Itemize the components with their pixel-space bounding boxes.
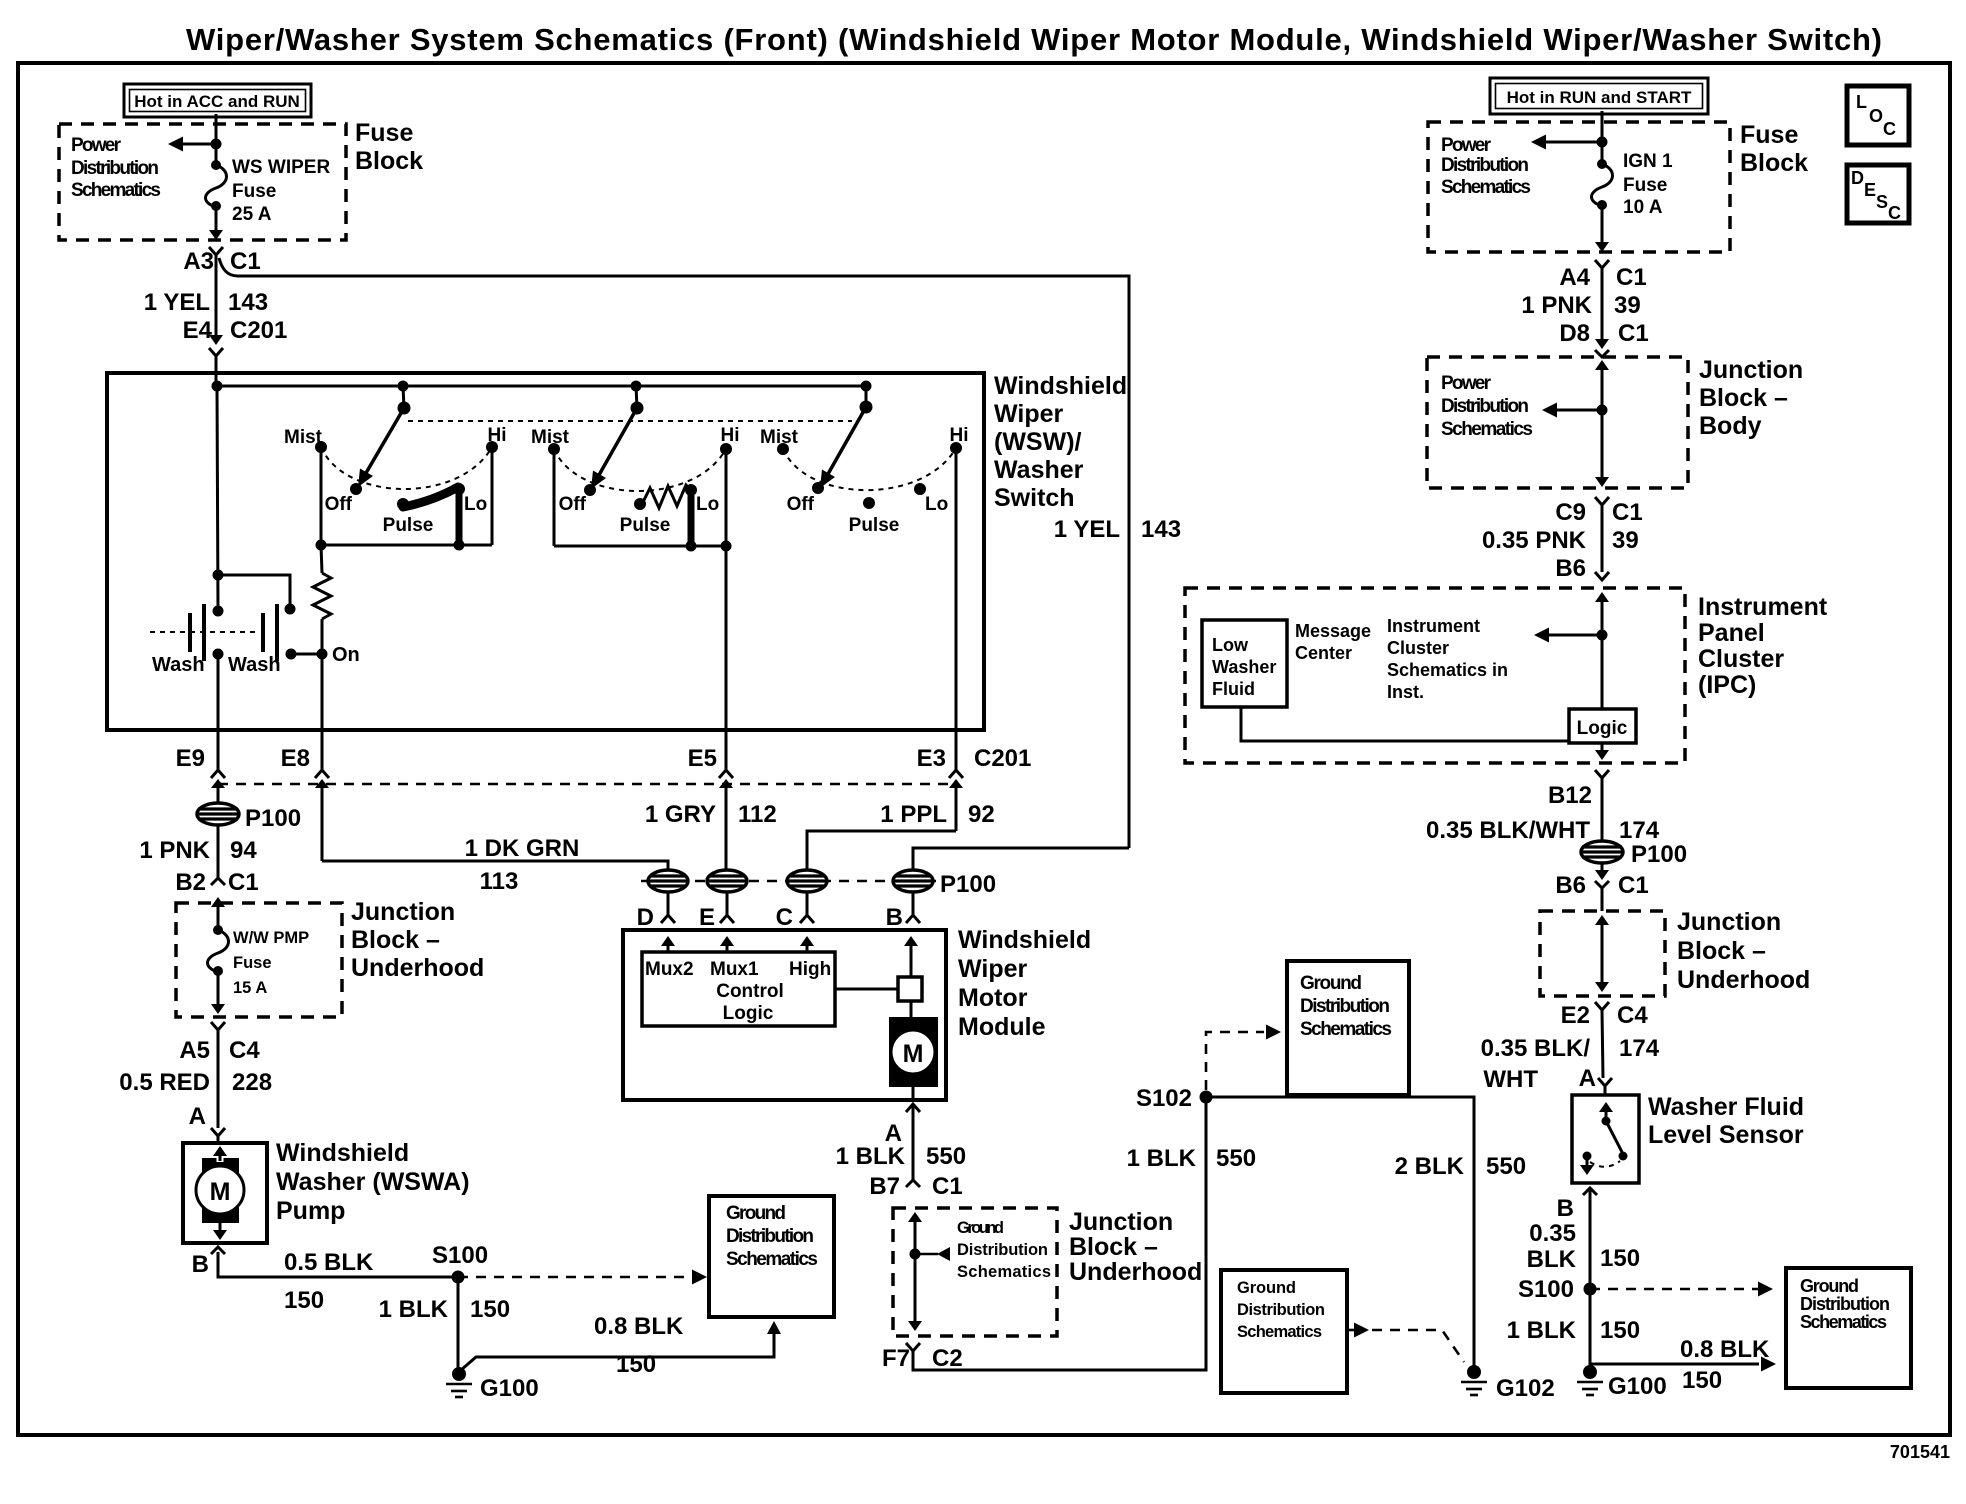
- svg-text:Windshield: Windshield: [276, 1139, 409, 1167]
- svg-text:Schematics: Schematics: [1800, 1312, 1887, 1332]
- arrow into bottom junction block: [908, 1212, 922, 1326]
- svg-text:E2: E2: [1561, 1002, 1590, 1029]
- svg-text:A3: A3: [183, 248, 214, 275]
- svg-text:S102: S102: [1136, 1085, 1192, 1112]
- svg-text:2 BLK: 2 BLK: [1395, 1153, 1465, 1180]
- dashed reference S102 to ground distribution: [1206, 1025, 1281, 1091]
- svg-text:S100: S100: [432, 1242, 488, 1269]
- fuse F1 WS WIPER 25A symbol: [206, 160, 227, 211]
- pin label E3 / C201: [917, 745, 1032, 772]
- svg-text:B6: B6: [1555, 872, 1586, 899]
- wire label 1 PNK 39: [1521, 292, 1640, 319]
- wire label 1 YEL 143 (right of switch): [1054, 516, 1181, 543]
- svg-text:Underhood: Underhood: [1069, 1258, 1202, 1286]
- svg-text:C4: C4: [229, 1037, 260, 1064]
- svg-text:Hi: Hi: [721, 425, 740, 446]
- svg-text:Instrument: Instrument: [1387, 616, 1480, 636]
- svg-text:Power: Power: [71, 135, 122, 156]
- wire label 1 BLK 550 (S102): [1127, 1145, 1256, 1172]
- svg-text:Washer Fluid: Washer Fluid: [1648, 1093, 1804, 1121]
- svg-text:Hot in RUN and START: Hot in RUN and START: [1507, 88, 1692, 107]
- pin label F7 / C2: [882, 1345, 963, 1372]
- svg-text:Block –: Block –: [1677, 937, 1766, 965]
- wire B12 to P100: [1601, 778, 1604, 841]
- arrow out of fuse block bottom: [209, 230, 223, 240]
- svg-text:Wiper/Washer System Schematics: Wiper/Washer System Schematics (Front) (…: [186, 22, 1882, 57]
- wire label 1 PPL 92: [880, 801, 994, 828]
- svg-text:C: C: [1883, 119, 1896, 139]
- svg-text:Underhood: Underhood: [351, 954, 484, 982]
- connector P100 pass-through B: [893, 870, 933, 892]
- svg-text:Washer: Washer: [1212, 657, 1276, 677]
- arrow out of IPC: [1595, 743, 1609, 760]
- wire low washer fluid to logic: [1241, 707, 1569, 741]
- svg-text:Junction: Junction: [1677, 908, 1781, 936]
- wire gang1 Lo to bus (thick): [456, 488, 463, 545]
- svg-text:Wiper: Wiper: [958, 955, 1027, 983]
- svg-text:Pulse: Pulse: [383, 515, 434, 536]
- svg-text:C1: C1: [230, 248, 261, 275]
- svg-text:1 GRY: 1 GRY: [645, 801, 716, 828]
- svg-text:Mux1: Mux1: [710, 959, 759, 980]
- hot in ACC and RUN power tag: [124, 84, 311, 117]
- svg-text:25 A: 25 A: [232, 204, 272, 225]
- arrow out of junction block bottom: [211, 1004, 225, 1014]
- svg-text:Block: Block: [355, 147, 423, 175]
- svg-text:Ground: Ground: [726, 1203, 786, 1224]
- wire label 0.8 BLK 150 (right): [1680, 1336, 1770, 1394]
- svg-text:C: C: [1888, 203, 1901, 223]
- wash switch branch wire: [213, 570, 296, 615]
- switch gang 3 actuator: [820, 381, 873, 489]
- node: IGN fuse feed junction: [1597, 137, 1608, 148]
- svg-text:Lo: Lo: [696, 494, 719, 515]
- wire fuse F3 to block edge: [1601, 205, 1604, 248]
- svg-text:Distribution: Distribution: [1300, 996, 1390, 1017]
- power distribution schematics reference text (left fuse block): [71, 135, 161, 201]
- wire label 1 BLK 150 (left): [379, 1296, 510, 1323]
- svg-text:B12: B12: [1548, 782, 1592, 809]
- svg-text:Hi: Hi: [488, 425, 507, 446]
- svg-text:P100: P100: [940, 871, 996, 898]
- fuse F3 IGN 1 10A symbol: [1592, 159, 1613, 210]
- wash labels: [152, 654, 281, 676]
- wire label 0.35 PNK 39: [1482, 527, 1639, 554]
- svg-text:S100: S100: [1518, 1276, 1574, 1303]
- ground distribution schematics text (bottom mid): [1237, 1279, 1325, 1341]
- svg-text:Washer: Washer: [994, 456, 1084, 484]
- svg-text:E5: E5: [688, 745, 717, 772]
- svg-text:Windshield: Windshield: [994, 372, 1127, 400]
- instrument panel cluster dashed box: [1185, 588, 1685, 763]
- pump name label: [276, 1139, 470, 1225]
- pin label A3 / C1: [183, 248, 260, 275]
- wire A5 to pump: [217, 1030, 220, 1128]
- svg-text:94: 94: [230, 837, 257, 864]
- connector C201 dashed line: [218, 783, 956, 786]
- gang1 bottom bus: [321, 544, 492, 547]
- module name label: [958, 926, 1091, 1041]
- wire wash2 to On node: [291, 653, 322, 656]
- svg-text:Lo: Lo: [925, 494, 948, 515]
- arrow out of bottom junction block: [908, 1321, 922, 1331]
- wire F7 to S102: [913, 1097, 1206, 1370]
- junction block body dashed box: [1427, 357, 1688, 488]
- svg-text:Ground: Ground: [1237, 1279, 1296, 1297]
- connector P100 pass-through (E9 wire): [197, 803, 239, 825]
- wire label 0.35 BLK/WHT 174: [1426, 817, 1660, 844]
- svg-text:A: A: [189, 1103, 206, 1130]
- mechanical coupling dashed line (wiper selector): [408, 420, 852, 422]
- svg-text:0.35 BLK/WHT: 0.35 BLK/WHT: [1426, 817, 1590, 844]
- svg-text:0.5 BLK: 0.5 BLK: [284, 1249, 374, 1276]
- svg-text:Schematics: Schematics: [1300, 1019, 1392, 1040]
- module pin D stub and fork: [661, 892, 675, 923]
- wire from hot tag into fuse block: [215, 114, 218, 163]
- connector C1 pin C9 fork: [1595, 497, 1609, 505]
- wash contact 2 terminals: [286, 649, 297, 660]
- svg-text:(IPC): (IPC): [1698, 671, 1756, 699]
- wire label 1 BLK 550 (module): [836, 1143, 966, 1170]
- wire label 1 PNK 94: [139, 837, 257, 864]
- ground distribution schematics text (bottom right): [1800, 1276, 1890, 1332]
- svg-text:150: 150: [1600, 1317, 1640, 1344]
- svg-text:Ground: Ground: [1800, 1276, 1859, 1296]
- svg-text:E3: E3: [917, 745, 946, 772]
- wire label 0.35 BLK 150 (sensor): [1527, 1220, 1640, 1273]
- ground distribution ref arrow (in junction block): [915, 1247, 950, 1261]
- svg-text:0.35 BLK/: 0.35 BLK/: [1481, 1035, 1591, 1062]
- svg-text:Junction: Junction: [351, 898, 455, 926]
- arrow out of junction block body: [1595, 477, 1609, 487]
- wire gang1 Hi to bus: [491, 447, 494, 545]
- junction block underhood (left) name: [351, 898, 484, 982]
- svg-text:P100: P100: [245, 805, 301, 832]
- wash mechanical dashed link: [150, 631, 258, 633]
- svg-text:Body: Body: [1699, 412, 1762, 440]
- splice S102: [1200, 1091, 1213, 1104]
- svg-text:C2: C2: [932, 1345, 963, 1372]
- node On: [317, 649, 328, 660]
- svg-text:1 YEL: 1 YEL: [1054, 516, 1120, 543]
- svg-text:Underhood: Underhood: [1677, 966, 1810, 994]
- svg-text:E9: E9: [176, 745, 205, 772]
- svg-text:Switch: Switch: [994, 484, 1075, 512]
- wire sensor B to S100: [1589, 1188, 1592, 1289]
- node gang2 bus at Lo: [686, 541, 697, 552]
- svg-text:Wiper: Wiper: [994, 400, 1063, 428]
- svg-text:C4: C4: [1617, 1002, 1648, 1029]
- svg-text:B: B: [1557, 1195, 1574, 1222]
- power distribution reference arrow (right): [1531, 135, 1602, 150]
- svg-text:143: 143: [1141, 516, 1181, 543]
- sensor switch symbol: [1580, 1102, 1628, 1175]
- svg-text:Off: Off: [559, 494, 587, 515]
- svg-text:A5: A5: [179, 1037, 210, 1064]
- svg-text:150: 150: [470, 1296, 510, 1323]
- svg-text:550: 550: [1486, 1153, 1526, 1180]
- svg-text:High: High: [789, 959, 831, 980]
- svg-text:Schematics: Schematics: [1441, 419, 1533, 440]
- svg-text:Mist: Mist: [760, 427, 799, 448]
- svg-text:Distribution: Distribution: [1800, 1294, 1890, 1314]
- svg-text:C1: C1: [932, 1173, 963, 1200]
- svg-text:Junction: Junction: [1069, 1208, 1173, 1236]
- svg-text:C201: C201: [230, 317, 287, 344]
- svg-text:G100: G100: [1608, 1373, 1667, 1400]
- IPC pin B12 fork: [1595, 770, 1609, 778]
- svg-text:Motor: Motor: [958, 984, 1028, 1012]
- svg-text:Power: Power: [1441, 373, 1492, 394]
- connector P100 pass-through D: [648, 870, 688, 892]
- svg-text:150: 150: [616, 1351, 656, 1378]
- svg-text:Pulse: Pulse: [620, 515, 671, 536]
- svg-text:Inst.: Inst.: [1387, 682, 1424, 702]
- svg-text:150: 150: [1682, 1367, 1722, 1394]
- svg-text:Schematics: Schematics: [1441, 177, 1531, 198]
- wire logic to relay square: [835, 988, 898, 991]
- svg-text:Lo: Lo: [464, 494, 487, 515]
- pin label A4 / C1: [1559, 264, 1646, 291]
- wire module A to B7: [912, 1104, 915, 1180]
- wire feed down to wash contacts: [217, 386, 218, 611]
- connector P100 pass-through C: [787, 870, 827, 892]
- node IPC ref: [1597, 630, 1608, 641]
- svg-text:1 BLK: 1 BLK: [1127, 1145, 1197, 1172]
- control logic labels: [645, 959, 831, 1024]
- svg-text:1 YEL: 1 YEL: [144, 289, 210, 316]
- svg-text:C1: C1: [1618, 320, 1649, 347]
- svg-text:L: L: [1856, 92, 1867, 112]
- svg-text:E4: E4: [183, 317, 213, 344]
- svg-text:Schematics: Schematics: [1237, 1323, 1322, 1341]
- splice S100: [452, 1271, 465, 1284]
- ground distribution schematics box (bottom right): [1786, 1268, 1911, 1388]
- connector C4 pin E2 fork: [1595, 1002, 1609, 1010]
- svg-text:Hot in ACC and RUN: Hot in ACC and RUN: [134, 92, 300, 111]
- ground distribution text (in junction block): [957, 1219, 1051, 1281]
- wire 1 DK GRN 113 (E8 to module D): [322, 861, 668, 870]
- module pin A fork: [906, 1104, 920, 1112]
- svg-text:150: 150: [284, 1287, 324, 1314]
- wire gang2 Lo to bus (thick): [688, 489, 695, 546]
- switch gang 3 position arc (dashed): [783, 448, 956, 490]
- wire A4 to D8: [1601, 268, 1604, 342]
- wash contact 1 movable blades: [190, 604, 204, 661]
- node junction block ground ref: [910, 1249, 921, 1260]
- connector C2 pin F7 fork: [906, 1343, 920, 1351]
- svg-text:Distribution: Distribution: [1441, 396, 1529, 417]
- svg-text:39: 39: [1612, 527, 1639, 554]
- svg-text:BLK: BLK: [1527, 1246, 1577, 1273]
- svg-text:E8: E8: [281, 745, 310, 772]
- ground G102: [1461, 1365, 1487, 1395]
- svg-text:Fuse: Fuse: [1740, 121, 1798, 149]
- ground G100 (right): [1577, 1365, 1603, 1395]
- switch gang 2 position labels: [531, 425, 740, 536]
- svg-text:Cluster: Cluster: [1698, 645, 1784, 673]
- resistor (pulse) between Pulse and Lo gang2: [642, 485, 691, 508]
- svg-text:P100: P100: [1631, 841, 1687, 868]
- svg-text:10 A: 10 A: [1623, 197, 1663, 218]
- arrow out of right fuse block: [1595, 242, 1609, 252]
- svg-text:Schematics: Schematics: [726, 1249, 818, 1270]
- ground distribution schematics box (lower left): [709, 1196, 834, 1317]
- wiper motor M2 symbol: [889, 1017, 938, 1087]
- svg-text:D: D: [1851, 168, 1864, 188]
- pin label B7 / C1: [869, 1173, 962, 1200]
- svg-text:C201: C201: [974, 745, 1031, 772]
- wire pump B to S100: [218, 1252, 458, 1277]
- svg-text:Block: Block: [1740, 149, 1808, 177]
- windshield wiper motor module box: [623, 930, 946, 1100]
- switch internal feed bus: [217, 385, 866, 388]
- svg-text:D: D: [637, 904, 654, 931]
- svg-text:M: M: [903, 1040, 924, 1068]
- svg-text:Fuse: Fuse: [233, 954, 272, 972]
- svg-text:150: 150: [1600, 1245, 1640, 1272]
- dashed reference wire S100 to ground distribution: [458, 1270, 707, 1285]
- switch gang 1 position labels: [284, 425, 507, 536]
- svg-text:Power: Power: [1441, 135, 1492, 156]
- wire 1 PPL 92 elbow (E3 to module C): [807, 831, 956, 870]
- junction block body name: [1699, 356, 1803, 440]
- wire 0.8 BLK 150 to ground distribution (left): [461, 1321, 781, 1370]
- svg-text:Wash: Wash: [228, 654, 281, 676]
- fuse F2 value label: [233, 929, 309, 997]
- svg-text:1 DK GRN: 1 DK GRN: [465, 835, 580, 862]
- svg-text:174: 174: [1619, 817, 1660, 844]
- hot in RUN and START power tag: [1490, 78, 1708, 114]
- svg-text:O: O: [1869, 106, 1883, 126]
- module pin B stub and fork: [906, 892, 920, 923]
- wire On to E8 exit: [321, 654, 324, 730]
- svg-text:E: E: [1864, 180, 1876, 200]
- fuse block (right): [1428, 122, 1730, 252]
- node gang2 bus at Hi: [721, 541, 732, 552]
- svg-text:1 PNK: 1 PNK: [139, 837, 210, 864]
- dashed reference to G102: [1347, 1323, 1464, 1363]
- power distribution ref arrow (junction block body): [1542, 403, 1602, 418]
- DESC tab: [1847, 165, 1909, 223]
- wire C9 to B6: [1601, 505, 1604, 572]
- svg-text:WS WIPER: WS WIPER: [232, 157, 330, 178]
- wire fuse F2 to block bottom: [217, 971, 220, 1010]
- svg-text:1 BLK: 1 BLK: [379, 1296, 449, 1323]
- wire from hot tag into fuse block: [1601, 111, 1604, 164]
- svg-text:Ground: Ground: [1300, 973, 1362, 994]
- svg-text:39: 39: [1614, 292, 1641, 319]
- node junction block body ref: [1597, 405, 1608, 416]
- svg-text:Distribution: Distribution: [1441, 155, 1529, 176]
- resistor (pulse delay) in switch: [313, 545, 331, 654]
- wire C1 to wiper motor module pin B (1 YEL 143): [219, 258, 1129, 848]
- svg-text:(WSW)/: (WSW)/: [994, 428, 1082, 456]
- wire S100 right to G100: [1589, 1289, 1592, 1368]
- wire E4 into switch: [215, 356, 218, 386]
- wire P100 to B6 C1: [1601, 863, 1604, 874]
- svg-text:Logic: Logic: [723, 1003, 774, 1024]
- connector C1 pin A4 fork: [1595, 260, 1609, 268]
- svg-text:550: 550: [1216, 1145, 1256, 1172]
- connector P100 pass-through (right): [1581, 841, 1623, 863]
- switch gang 1 position dots: [315, 441, 498, 510]
- svg-text:Fuse: Fuse: [1623, 175, 1667, 196]
- connector C4 pin A5 fork: [211, 1022, 225, 1030]
- washer fluid level sensor box: [1572, 1095, 1639, 1183]
- wire A3 to E4: [215, 255, 218, 338]
- switch gang 2 position arc (dashed): [554, 449, 726, 491]
- wash contact 1 terminals: [213, 606, 224, 660]
- svg-text:15 A: 15 A: [233, 979, 267, 997]
- node bus at feed wire: [212, 381, 223, 392]
- wire 1 YEL to module B: [913, 848, 1129, 870]
- junction block underhood (right) dashed box: [1540, 911, 1665, 996]
- svg-text:1 BLK: 1 BLK: [1507, 1317, 1577, 1344]
- svg-text:0.5 RED: 0.5 RED: [119, 1069, 210, 1096]
- module pin C stub and fork: [800, 892, 814, 923]
- wire gang2 Hi through bus to E5 exit: [725, 449, 728, 730]
- svg-text:550: 550: [926, 1143, 966, 1170]
- pin label B2 / C1: [175, 869, 258, 896]
- IPC pin B6 fork: [1595, 572, 1609, 580]
- svg-text:Distribution: Distribution: [1237, 1301, 1325, 1319]
- svg-text:Off: Off: [787, 494, 815, 515]
- svg-text:0.8 BLK: 0.8 BLK: [594, 1313, 684, 1340]
- wire label 1 GRY 112: [645, 801, 777, 828]
- svg-text:WHT: WHT: [1483, 1066, 1538, 1093]
- svg-text:IGN 1: IGN 1: [1623, 151, 1673, 172]
- svg-text:Ground: Ground: [957, 1219, 1004, 1237]
- svg-text:F7: F7: [882, 1345, 910, 1372]
- svg-text:W/W PMP: W/W PMP: [233, 929, 309, 947]
- node: fuse feed junction: [211, 139, 222, 150]
- connector C201 pin E5: [719, 730, 733, 870]
- svg-text:Pump: Pump: [276, 1197, 345, 1225]
- svg-text:Windshield: Windshield: [958, 926, 1091, 954]
- junction block underhood (left) dashed box: [176, 903, 342, 1017]
- logic box (IPC): [1569, 709, 1636, 743]
- wire square to motor: [910, 1001, 913, 1017]
- arrow into IPC: [1595, 592, 1609, 709]
- connector P100 pass-through E: [707, 870, 747, 892]
- svg-text:Instrument: Instrument: [1698, 593, 1828, 621]
- svg-text:Fuse: Fuse: [355, 119, 413, 147]
- svg-text:701541: 701541: [1890, 1442, 1950, 1462]
- control logic box U1: [642, 952, 835, 1026]
- wire motor to module pin A: [912, 1087, 915, 1102]
- junction block underhood (bottom) dashed box: [893, 1208, 1057, 1336]
- svg-text:B: B: [886, 904, 903, 931]
- junction block underhood (bottom) name: [1069, 1208, 1202, 1286]
- svg-text:0.35 PNK: 0.35 PNK: [1482, 527, 1587, 554]
- connector C201 pin E3: [949, 730, 963, 831]
- wire gang1 Mist to bus: [320, 447, 323, 545]
- fuse F3 value label: [1623, 151, 1673, 218]
- ground distribution schematics box (bottom mid): [1221, 1270, 1347, 1393]
- svg-text:C1: C1: [1616, 264, 1647, 291]
- wire 0.8 BLK 150 to ground distribution (right): [1590, 1357, 1776, 1372]
- pin label E2 / C4: [1561, 1002, 1649, 1029]
- svg-text:0.8 BLK: 0.8 BLK: [1680, 1336, 1770, 1363]
- svg-text:Distribution: Distribution: [726, 1226, 814, 1247]
- svg-text:S: S: [1876, 192, 1888, 212]
- connector C201 pin E4 symbol: [209, 335, 223, 356]
- pin label C9 / C1: [1555, 499, 1642, 526]
- svg-text:Fluid: Fluid: [1212, 679, 1255, 699]
- svg-text:Block –: Block –: [1699, 384, 1788, 412]
- svg-text:G102: G102: [1496, 1375, 1555, 1402]
